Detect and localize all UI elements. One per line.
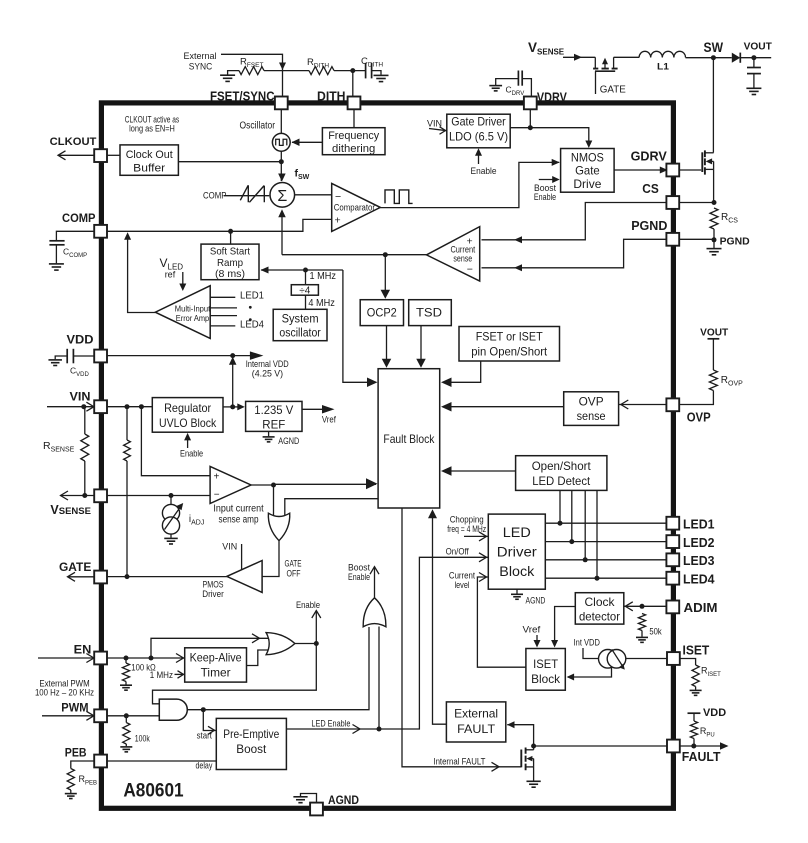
svg-text:VSENSE: VSENSE <box>50 503 91 517</box>
block FSET or ISET pin Open/Short <box>459 327 560 362</box>
svg-text:Current: Current <box>449 571 476 581</box>
wire mirror to ISET pin <box>626 658 667 660</box>
current mirror ISET <box>599 650 618 669</box>
node EN 100k <box>124 656 129 661</box>
resistor R_PU <box>690 721 697 739</box>
ground at i_ADJ <box>170 534 172 538</box>
wire FAULT line internal <box>534 745 667 747</box>
oscillator U-osc <box>272 133 290 151</box>
pin ISET <box>667 652 680 665</box>
node boost-enable tap <box>377 727 382 732</box>
svg-text:VSENSE: VSENSE <box>528 40 565 57</box>
ground at output capacitor <box>746 87 761 89</box>
svg-text:PMOS: PMOS <box>203 580 224 590</box>
pin LED3 <box>666 553 679 566</box>
svg-text:Keep-Alive: Keep-Alive <box>190 651 242 665</box>
node OCP2 tap <box>383 252 388 257</box>
svg-text:Vref: Vref <box>322 415 336 425</box>
pin CLKOUT <box>94 149 107 162</box>
svg-text:RPEB: RPEB <box>79 774 98 787</box>
wire pass FET gate stub <box>595 71 597 94</box>
wire OVP sense to fault block <box>443 406 564 408</box>
svg-text:Enable: Enable <box>180 448 203 459</box>
svg-text:start: start <box>197 730 213 740</box>
wire ISET pin to R_ISET <box>680 659 696 666</box>
wire R_FSET to node <box>264 70 309 72</box>
svg-text:1.235 V: 1.235 V <box>254 403 294 417</box>
wire fault block to OR gate <box>285 499 378 515</box>
svg-text:Soft Start: Soft Start <box>210 247 250 258</box>
svg-text:RSENSE: RSENSE <box>43 440 75 454</box>
svg-text:SYNC: SYNC <box>189 61 213 72</box>
node PWM 100k <box>124 713 129 718</box>
svg-text:LDO (6.5 V): LDO (6.5 V) <box>449 129 508 143</box>
wire CS to current sense + <box>482 203 669 240</box>
svg-text:LED1: LED1 <box>240 291 264 302</box>
summer sigma <box>270 183 295 208</box>
pin VDRV <box>524 97 537 110</box>
svg-text:CS: CS <box>642 181 659 196</box>
wire current level loop from ISET block <box>477 577 526 667</box>
svg-text:ADIM: ADIM <box>684 600 718 615</box>
svg-text:oscillator: oscillator <box>279 327 321 339</box>
node enable <box>314 641 319 646</box>
wire PWM input <box>42 715 94 717</box>
wire comparator output to NMOS gate drive <box>380 162 559 207</box>
resistor R_SENSE <box>84 407 86 434</box>
wire VIN into LDO <box>429 129 447 131</box>
svg-text:Ramp: Ramp <box>217 258 243 269</box>
svg-text:VDD: VDD <box>67 332 94 346</box>
svg-text:pin Open/Short: pin Open/Short <box>471 345 548 359</box>
wire 1MHz to fault block <box>343 270 376 382</box>
pin EN <box>94 652 107 665</box>
svg-text:Drive: Drive <box>573 177 601 191</box>
svg-text:VDD: VDD <box>703 707 726 719</box>
svg-text:LED2: LED2 <box>683 535 715 550</box>
svg-text:OVP: OVP <box>579 394 604 408</box>
OR gate gate-off <box>268 513 289 541</box>
node start tap <box>201 707 206 712</box>
node gate-off or input <box>271 483 276 488</box>
svg-text:1 MHz: 1 MHz <box>150 670 174 680</box>
VOUT tap bar <box>708 338 720 340</box>
wire open/short drop 2 <box>571 490 573 541</box>
wire EN input <box>38 657 94 659</box>
wire PGND to current sense - <box>482 239 669 267</box>
wire PWM line to AND <box>107 715 159 717</box>
wire GATE output arrow <box>68 576 95 578</box>
block Pre-Emptive Boost <box>216 718 286 769</box>
svg-text:sense: sense <box>453 254 472 264</box>
wire boost OR output arrow <box>374 567 376 598</box>
LED enable mid arrow <box>353 725 361 734</box>
svg-text:CLKOUT: CLKOUT <box>50 136 97 148</box>
node FAULT ext <box>691 744 696 749</box>
svg-text:VIN: VIN <box>70 389 91 403</box>
OR gate keep-alive <box>266 633 295 655</box>
wire LED2 line <box>545 541 666 543</box>
svg-text:−: − <box>335 191 341 203</box>
block Gate Driver LDO <box>447 114 510 148</box>
wire external SYNC to FSET/SYNC node <box>221 54 283 96</box>
svg-text:VOUT: VOUT <box>744 40 773 52</box>
pin AGND <box>310 803 323 816</box>
svg-text:OCP2: OCP2 <box>367 306 397 320</box>
wire ADIM to clock detector <box>624 605 642 607</box>
node VIN int 2 <box>139 404 144 409</box>
PMOS driver triangle <box>227 561 262 593</box>
wire buffer to oscillator node <box>178 161 281 163</box>
block Soft Start Ramp <box>230 231 232 244</box>
main switch NMOS Q1 <box>679 169 701 171</box>
resistor R_PEB <box>67 769 74 791</box>
wire COMP line <box>107 219 332 231</box>
ground at EN 100k <box>125 682 127 685</box>
wire OCP2 to fault block <box>386 326 388 351</box>
node CS ext <box>712 200 717 205</box>
svg-text:Chopping: Chopping <box>450 515 484 525</box>
block Keep-Alive Timer <box>185 648 247 682</box>
svg-text:RFSET: RFSET <box>240 57 264 70</box>
AND gate pwm <box>159 699 187 720</box>
svg-text:50k: 50k <box>649 626 662 636</box>
svg-text:LED4: LED4 <box>683 572 715 587</box>
wire VIN input <box>47 406 94 408</box>
wire Vref arrow into ISET block <box>536 635 538 641</box>
wire NMOS drive to GDRV pin <box>614 169 666 171</box>
resistor 50k <box>638 614 645 631</box>
svg-text:LED Detect: LED Detect <box>532 474 591 488</box>
svg-text:÷4: ÷4 <box>299 286 310 297</box>
node DITH junction <box>350 68 355 73</box>
resistor R_CS <box>710 208 718 229</box>
pin FSET/SYNC <box>275 97 288 110</box>
svg-text:Timer: Timer <box>201 665 231 679</box>
ground at fault NMOS <box>526 780 540 782</box>
sawtooth waveform <box>224 195 269 197</box>
ground AGND pin <box>301 794 317 804</box>
svg-text:PEB: PEB <box>65 745 87 759</box>
wire error amp input LED1 <box>210 296 235 298</box>
svg-text:(4.25 V): (4.25 V) <box>252 368 283 378</box>
wire EN to keepalive OR <box>151 638 269 658</box>
multi-input error amp <box>155 286 210 339</box>
wire Boost Enable stub <box>539 179 555 181</box>
wire clock detector to ISET block <box>555 607 576 642</box>
resistor 100kOhm EN <box>125 658 127 663</box>
svg-text:4 MHz: 4 MHz <box>308 298 335 309</box>
svg-text:FSET or ISET: FSET or ISET <box>476 330 543 344</box>
block 1.235V REF <box>246 401 302 431</box>
comparator output squarewave glyph <box>385 190 413 204</box>
pin OVP <box>666 398 679 411</box>
wire open/short to fault block <box>443 470 516 472</box>
ground at C_COMP <box>49 263 64 265</box>
fault NMOS transistor <box>520 750 522 768</box>
svg-text:detector: detector <box>579 609 620 623</box>
wire FAULT pin output arrow <box>680 745 728 747</box>
wire VDD to R_PU <box>693 713 695 721</box>
capacitor C_VDD <box>74 355 95 357</box>
current sense triangle <box>427 227 480 282</box>
svg-text:On/Off: On/Off <box>446 547 470 557</box>
wire amp output to fault block <box>251 483 376 486</box>
wire open/short drop 4 <box>596 490 598 578</box>
svg-text:PWM: PWM <box>61 701 88 715</box>
block Frequency dithering <box>322 128 385 155</box>
svg-text:LED3: LED3 <box>683 553 715 568</box>
pin PGND <box>666 233 679 246</box>
wire CLKOUT output arrow <box>58 154 94 156</box>
wire R_CS to PGND node <box>713 229 715 240</box>
svg-text:EN: EN <box>74 643 92 657</box>
pin LED1 <box>666 517 679 530</box>
wire summer to comparator <box>295 194 332 196</box>
input current sense amp <box>210 466 251 503</box>
wire DITH pin to dithering block <box>353 109 355 127</box>
svg-text:COMP: COMP <box>203 191 227 201</box>
wire VDRV pin to node <box>529 109 531 127</box>
svg-text:Clock Out: Clock Out <box>126 149 174 161</box>
svg-text:fSW: fSW <box>295 168 310 182</box>
svg-text:LED1: LED1 <box>683 517 715 532</box>
pin COMP <box>94 225 107 238</box>
wire error amp input mid2 <box>210 315 237 317</box>
node VSENSE ext <box>82 493 87 498</box>
pin ADIM <box>666 601 679 614</box>
block Open/Short LED Detect <box>516 456 607 491</box>
wire VSENSE line to amp - <box>107 495 210 497</box>
resistor R_FSET <box>239 67 264 75</box>
svg-text:−: − <box>214 489 220 500</box>
wire current sense output <box>282 254 427 256</box>
svg-text:Block: Block <box>499 564 534 579</box>
wire external fault sense <box>507 725 533 742</box>
svg-text:RDITH: RDITH <box>307 57 329 70</box>
wire error amp input LED4 <box>210 325 235 327</box>
diode at SW <box>732 53 740 63</box>
svg-text:LED Enable: LED Enable <box>311 719 350 729</box>
svg-text:System: System <box>282 313 319 325</box>
svg-text:Pre-Emptive: Pre-Emptive <box>223 727 279 741</box>
svg-text:GATE: GATE <box>285 559 302 569</box>
wire diode to VOUT <box>740 57 771 59</box>
svg-text:100 Hz – 20 KHz: 100 Hz – 20 KHz <box>35 688 95 698</box>
node VOUT <box>751 55 756 60</box>
wire VSENSE arrow stub <box>61 495 95 497</box>
wire PEB to R_PEB <box>71 761 95 769</box>
node fault drain <box>531 744 536 749</box>
IC boundary A80601 <box>101 103 673 808</box>
wire timer output to OR <box>247 650 269 666</box>
pin LED4 <box>666 572 679 585</box>
svg-text:RCS: RCS <box>721 212 738 225</box>
wire VIN to input sense amp + <box>141 407 210 476</box>
svg-text:Fault Block: Fault Block <box>383 432 434 446</box>
node EN branch <box>149 656 154 661</box>
block Clock Out Buffer <box>120 145 178 175</box>
svg-text:Clock: Clock <box>585 595 615 609</box>
pin VDD <box>94 350 107 363</box>
wire COMP pin to C_COMP <box>56 231 94 240</box>
wire Int VDD to mirror <box>583 648 600 659</box>
svg-text:VIN: VIN <box>222 542 237 552</box>
svg-text:Internal FAULT: Internal FAULT <box>433 757 485 767</box>
svg-text:ref: ref <box>165 270 176 280</box>
svg-text:level: level <box>455 580 470 590</box>
svg-text:Open/Short: Open/Short <box>532 459 592 473</box>
wire OVP pin to OVP sense <box>619 404 667 406</box>
wire LED1 line <box>545 522 666 524</box>
block TSD <box>409 300 452 326</box>
capacitor C_DITH <box>365 63 367 79</box>
wire enable node to AND gate <box>153 644 317 704</box>
wire REF Vref output <box>302 408 322 410</box>
node oscillator out <box>279 159 284 164</box>
node VIN ext <box>81 404 86 409</box>
wire LED4 line <box>545 577 666 579</box>
svg-text:AGND: AGND <box>526 595 546 605</box>
block External FAULT <box>446 702 505 742</box>
node VDD <box>230 353 235 358</box>
ground at PWM 100k <box>125 744 127 746</box>
wire EN line <box>107 657 185 659</box>
wire ADIM pin to 50k node <box>642 605 666 607</box>
svg-text:ISET: ISET <box>683 642 710 657</box>
wire and-line to boost OR <box>368 626 370 629</box>
wire 1MHz stub into timer <box>175 673 185 675</box>
wire node to summer <box>280 162 282 181</box>
wire R_PU to FAULT node <box>693 739 695 747</box>
svg-text:PGND: PGND <box>631 218 667 233</box>
svg-text:CCOMP: CCOMP <box>63 247 87 260</box>
svg-text:ISET: ISET <box>533 657 558 671</box>
node soft start tap <box>228 229 233 234</box>
svg-text:OFF: OFF <box>287 568 301 578</box>
svg-text:Enable: Enable <box>296 600 320 611</box>
pass PMOS transistor <box>594 57 596 68</box>
wire LED3 line <box>545 559 666 561</box>
pin PWM <box>94 709 107 722</box>
svg-text:Driver: Driver <box>497 544 537 559</box>
svg-text:DITH: DITH <box>317 89 346 103</box>
block LED Driver Block <box>488 514 545 589</box>
pin DITH <box>348 97 361 110</box>
svg-text:LED: LED <box>503 525 531 540</box>
wire regulator to REF <box>223 406 239 408</box>
svg-text:Enable: Enable <box>471 166 497 177</box>
wire PGND pin to node <box>679 238 714 240</box>
capacitor C_DRV <box>517 71 519 86</box>
pin GATE <box>94 571 107 584</box>
svg-text:OVP: OVP <box>687 409 711 424</box>
block Clock detector <box>575 593 624 624</box>
svg-text:External: External <box>454 707 498 721</box>
VDD tap bar <box>688 712 701 714</box>
pin FAULT <box>667 740 680 753</box>
svg-text:Error Amp: Error Amp <box>176 313 210 323</box>
svg-text:Gate Driver: Gate Driver <box>451 114 505 128</box>
wire LDO output to VDRV node <box>510 128 589 143</box>
svg-text:dithering: dithering <box>332 143 375 155</box>
wire OR output to enable node <box>295 643 316 645</box>
svg-text:A80601: A80601 <box>123 780 183 802</box>
ground at PGND <box>713 240 715 248</box>
svg-text:Vref: Vref <box>523 625 541 635</box>
svg-text:ROVP: ROVP <box>721 375 743 388</box>
wire FSET/ISET box to fault block <box>443 361 481 382</box>
svg-text:FAULT: FAULT <box>682 749 721 764</box>
svg-text:Comparator: Comparator <box>334 202 375 212</box>
svg-text:Oscillator: Oscillator <box>240 120 276 131</box>
pin VIN <box>94 400 107 413</box>
wire CLKOUT pin to buffer <box>107 154 120 156</box>
svg-text:Boost: Boost <box>236 742 267 756</box>
inductor L1 <box>614 56 640 58</box>
wire SW node <box>686 57 732 59</box>
OR gate boost enable <box>363 598 386 627</box>
svg-text:Boost: Boost <box>348 562 370 572</box>
wire Enable into regulator <box>187 437 189 448</box>
ground at 50k <box>641 631 643 637</box>
wire dithering to oscillator arrow <box>292 141 322 143</box>
resistor R_DITH <box>309 67 334 75</box>
svg-text:Block: Block <box>531 672 560 686</box>
svg-text:Enable: Enable <box>348 572 370 582</box>
node regulator output <box>230 404 235 409</box>
svg-text:AGND: AGND <box>328 793 359 807</box>
wire VIN stub to PMOS driver <box>241 544 243 570</box>
wire TSD to fault block <box>420 326 422 359</box>
wire open/short drop 1 <box>559 490 561 523</box>
wire error amp to COMP arrow <box>128 237 156 313</box>
block OCP2 <box>360 300 403 326</box>
ground at R_ISET <box>695 687 697 690</box>
wire VDD pin line <box>107 355 250 357</box>
svg-text:LED4: LED4 <box>240 320 265 331</box>
wire internal fault <box>402 508 521 767</box>
capacitor C_COMP <box>49 240 64 242</box>
wire FSET/SYNC pin to oscillator <box>280 109 282 133</box>
pin VSENSE <box>94 489 107 502</box>
node VIN int 1 <box>125 404 130 409</box>
svg-text:VOUT: VOUT <box>700 327 729 339</box>
wire node to DITH pin <box>352 71 354 97</box>
resistor R_OVP <box>709 370 717 391</box>
svg-text:CVDD: CVDD <box>70 366 89 379</box>
ground AGND at LED driver <box>516 589 518 594</box>
svg-text:L1: L1 <box>657 61 670 72</box>
block divide by 4 <box>305 270 307 285</box>
block Fault Block <box>378 369 440 508</box>
svg-text:GDRV: GDRV <box>631 148 668 163</box>
capacitor output at VOUT <box>753 58 755 68</box>
resistor R_ISET <box>692 665 699 687</box>
block ISET Block <box>526 649 565 691</box>
svg-text:Regulator: Regulator <box>164 401 211 415</box>
node PGND ext <box>712 237 717 242</box>
svg-text:delay: delay <box>196 761 213 771</box>
ground at R_FSET <box>228 71 239 75</box>
svg-text:Frequency: Frequency <box>328 130 379 142</box>
svg-text:Σ: Σ <box>277 188 287 205</box>
wire switch source to CS node <box>713 169 715 202</box>
svg-text:Buffer: Buffer <box>133 162 165 174</box>
wire boost enable up <box>378 627 380 730</box>
svg-text:Driver: Driver <box>202 589 224 599</box>
svg-text:RISET: RISET <box>701 666 721 679</box>
